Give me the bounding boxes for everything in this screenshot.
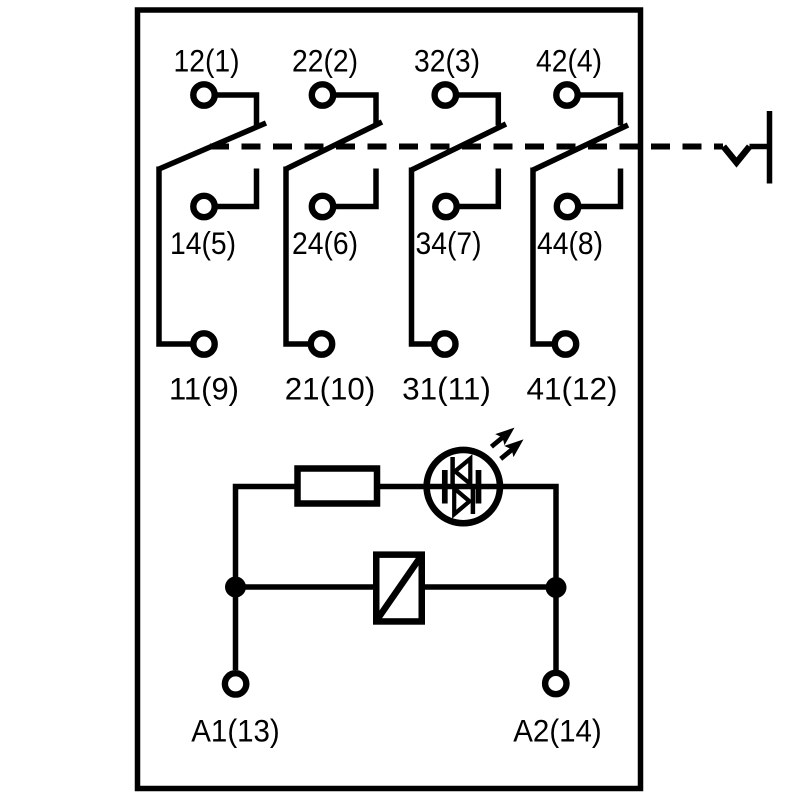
svg-text:A1(13): A1(13) [191, 713, 280, 749]
terminal 41(12) [555, 333, 576, 354]
terminal 22(2) [312, 84, 333, 105]
coil diagonal [377, 556, 422, 621]
terminal A2(14) [545, 673, 566, 694]
junction node A1 [225, 577, 246, 598]
LED right rail [476, 470, 482, 504]
svg-text:22(2): 22(2) [292, 43, 358, 79]
terminal 32(3) [435, 84, 456, 105]
svg-text:41(12): 41(12) [526, 371, 617, 407]
LED arrow 2 [501, 439, 524, 459]
terminal 31(11) [434, 333, 455, 354]
relay outline box [138, 10, 641, 789]
svg-text:24(6): 24(6) [292, 225, 358, 261]
terminal 14(5) [193, 196, 214, 217]
LED left rail [442, 470, 448, 504]
svg-text:21(10): 21(10) [285, 371, 376, 407]
svg-text:34(7): 34(7) [416, 225, 482, 261]
terminal 24(6) [312, 196, 333, 217]
svg-text:31(11): 31(11) [402, 371, 491, 407]
LED diode D2 triangle [454, 488, 469, 514]
switch arm [533, 125, 628, 170]
LED diode D1 cathode bar [450, 457, 455, 484]
svg-text:14(5): 14(5) [170, 225, 236, 261]
wire [458, 95, 498, 126]
wire bottom left to coil [236, 584, 377, 590]
wire NC stub [581, 169, 621, 207]
LED diode D1 triangle [455, 459, 470, 484]
svg-text:11(9): 11(9) [169, 371, 239, 407]
actuator chevron [724, 147, 750, 163]
dashed actuator line [210, 144, 723, 150]
actuator bar [767, 111, 773, 184]
wire NC stub [217, 169, 257, 207]
terminal 34(7) [435, 196, 456, 217]
wire common [412, 168, 433, 345]
terminal A1(13) [225, 673, 246, 694]
wire common [159, 167, 191, 345]
wire left branch [236, 487, 298, 671]
switch arm [412, 124, 507, 170]
junction node A2 [546, 577, 567, 598]
switch arm [159, 123, 266, 169]
wire common [533, 168, 553, 345]
terminal 44(8) [557, 196, 578, 217]
coil K1 [376, 555, 422, 622]
wire [217, 95, 257, 126]
wire [580, 95, 621, 126]
svg-text:32(3): 32(3) [414, 43, 480, 79]
switch arm [286, 122, 382, 169]
LED indicator circle [427, 450, 500, 523]
wire resistor to LED to right branch [380, 487, 556, 671]
svg-text:A2(14): A2(14) [513, 713, 602, 749]
terminal 12(1) [193, 84, 214, 105]
svg-text:42(4): 42(4) [536, 43, 602, 79]
svg-text:12(1): 12(1) [174, 43, 240, 79]
wire coil to bottom right [422, 584, 556, 590]
wire NC stub [459, 169, 498, 207]
svg-text:44(8): 44(8) [537, 225, 603, 261]
resistor R1 [298, 469, 378, 504]
terminal 42(4) [556, 84, 577, 105]
wire actuator link [750, 144, 768, 150]
wire [336, 95, 377, 126]
LED arrow 1 [491, 428, 514, 447]
terminal 21(10) [311, 333, 332, 354]
wire common [286, 167, 309, 345]
terminal 11(9) [193, 333, 214, 354]
LED diode D2 cathode bar [471, 488, 476, 514]
wire NC stub [336, 169, 377, 207]
